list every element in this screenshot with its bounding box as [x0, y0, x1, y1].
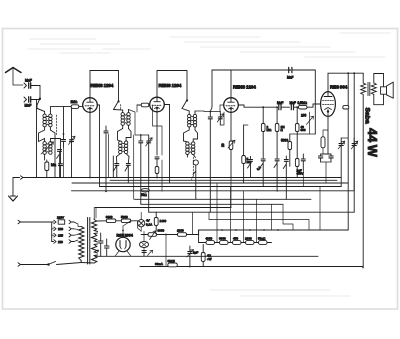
- divider feed wire y230: [199, 229, 349, 231]
- power transformer core: [88, 218, 90, 265]
- svg-text:30Ω0: 30Ω0: [168, 259, 176, 263]
- vertical x166 pot to bottom: [165, 235, 167, 267]
- staircase vertical x271.5: [271, 204, 273, 230]
- barretter element: [140, 235, 149, 252]
- voltage selector left rail: [51, 222, 53, 242]
- transformer T3 bandfilter 2 primary: [114, 110, 131, 129]
- wire antenna caps to switch: [39, 86, 41, 99]
- capacitor C16 det bottom with lever: [274, 159, 279, 191]
- bus wire y204.3: [141, 203, 283, 205]
- bus wire y199.3: [135, 198, 312, 200]
- voltage selector contacts row 220: [52, 220, 74, 224]
- resistor R4 below tube V2: [155, 167, 159, 178]
- resistor R11 bottom vertical: [295, 159, 299, 178]
- grid resistor R2 of tube V1: [71, 105, 82, 109]
- wire grid tube V3: [220, 105, 224, 125]
- svg-text:125: 125: [58, 233, 63, 237]
- wire x113.3 column: [112, 156, 114, 178]
- resistor R21 vertical 1400: [154, 212, 158, 231]
- bus wire y212.2: [149, 211, 355, 213]
- svg-text:Saba: Saba: [363, 108, 370, 124]
- variable resistor R5 below tube V3: [228, 140, 235, 177]
- switch contact with capacitor below T4 left: [114, 157, 119, 178]
- tube V2 REN1204 triode: [150, 97, 165, 112]
- capacitor C4 padder: [62, 107, 66, 178]
- trimmer capacitor C7 bandfilter2: [139, 135, 143, 204]
- resistor R18 bleeder vertical: [201, 244, 205, 266]
- bottom bus y256.3: [95, 255, 318, 257]
- label 100 with trimmer arrow: [301, 112, 314, 134]
- svg-text:1300: 1300: [245, 237, 252, 241]
- svg-text:6000: 6000: [219, 237, 226, 241]
- transformer T6 bandfilter 3 secondary: [184, 139, 198, 158]
- anode loop wire tube V3 top supply: [210, 70, 278, 112]
- capacitor C19 cathode: [321, 154, 334, 183]
- switch S2 on anode loop: [114, 101, 120, 110]
- electrolytic C25 with arrow: [187, 246, 194, 267]
- transformer T1 antenna coil: [43, 112, 52, 131]
- resistor R17: [254, 241, 272, 245]
- capacitor C18 cathode: [319, 154, 329, 162]
- variable capacitor C8 arrow bandfilter2: [146, 135, 153, 212]
- resistor R14: [215, 241, 229, 245]
- svg-text:MaF: MaF: [290, 101, 296, 105]
- wire x108.5: [108, 134, 110, 178]
- wire x320: [319, 187, 321, 231]
- switch contact circle below T6: [193, 160, 198, 199]
- svg-text:2μF: 2μF: [193, 251, 198, 255]
- resistor R19 filament row: [98, 219, 122, 223]
- svg-text:RES 964: RES 964: [330, 85, 348, 90]
- wire T1 right lead down: [50, 130, 55, 178]
- transformer T5 bandfilter 3 primary: [182, 109, 197, 131]
- wire T1 to T2 left loop: [39, 130, 45, 142]
- resistor R15: [228, 241, 241, 245]
- voltage selector contacts row bottom: [52, 240, 74, 244]
- svg-text:1300: 1300: [177, 229, 184, 233]
- coupling loop between T5 and T6: [184, 130, 198, 141]
- power transformer filament winding 1: [92, 233, 98, 242]
- staircase vertical x283: [283, 204, 293, 230]
- vertical supply wire x348: [347, 73, 349, 230]
- bottom bus y266.5: [140, 266, 363, 268]
- bus wire y186.5: [100, 186, 342, 188]
- svg-text:5000: 5000: [281, 139, 288, 143]
- HT wire to rectifier: [94, 208, 96, 219]
- bus wire y183: [72, 182, 348, 184]
- capacitor C9 below tube V2: [155, 157, 159, 167]
- capacitor C14 coupling: [291, 105, 298, 110]
- staircase vertical x243.5: [243, 191, 245, 242]
- earth terminal contact: [13, 176, 341, 196]
- resistor R25 agc vertical: [242, 125, 248, 183]
- transformer T4 bandfilter 2 secondary: [117, 138, 132, 157]
- capacitor C1 antenna coupling: [24, 83, 40, 88]
- staircase vertical x217 to divider: [216, 183, 218, 243]
- variable capacitor C11 arrow bandfilter3: [217, 112, 224, 126]
- transformer T2 tuned secondary: [39, 139, 53, 161]
- vertical x192.5 right psu: [193, 212, 199, 234]
- capacitor C26 with lever: [248, 157, 253, 178]
- capacitor C3 below coil: [59, 158, 63, 178]
- capacitor C24 below barretter: [142, 250, 153, 256]
- wire x133.7: [133, 135, 135, 199]
- tube V3 RENS1204: [224, 98, 239, 113]
- svg-text:MaF: MaF: [25, 79, 32, 83]
- coupling loop between T3 and T4: [118, 129, 132, 141]
- smoothing capacitor C23: [105, 239, 110, 256]
- volume control ellipse: [141, 189, 149, 192]
- voltage selector contacts row 110: [52, 233, 74, 237]
- svg-text:MΩ: MΩ: [51, 163, 57, 167]
- wire column x166 from grid components: [153, 105, 163, 191]
- resistor R7 detector vertical: [261, 107, 265, 158]
- mains bottom wire with switch: [18, 262, 81, 267]
- wire column x106: [105, 134, 107, 191]
- wire connecting r10 top: [290, 133, 316, 135]
- loudspeaker: [381, 82, 394, 98]
- power transformer filament winding 3: [81, 255, 97, 263]
- resistor R23 1300: [166, 230, 199, 236]
- capacitor C2 antenna coupling: [24, 97, 40, 102]
- bus wire y207.5 top supply of PSU: [95, 207, 231, 209]
- resistor R20 filament row: [121, 219, 137, 223]
- resistor R10 mid vertical: [288, 134, 292, 166]
- rectifier tube V5 RGN2004: [115, 231, 131, 257]
- switch contact with capacitor below T4 right: [125, 157, 130, 184]
- svg-text:220V: 220V: [57, 216, 64, 220]
- dashed gang line below switches: [192, 157, 194, 180]
- tube V1 REN1204 triode: [83, 98, 98, 113]
- power transformer primary winding: [79, 227, 84, 263]
- antenna: [6, 68, 24, 86]
- trimmer capacitor C5 with arrow: [69, 107, 76, 178]
- staircase vertical x230.5: [230, 187, 232, 243]
- mains wire top: [20, 221, 51, 223]
- svg-text:1MΩ: 1MΩ: [71, 100, 78, 104]
- cathode resistor R12 tube V4: [321, 130, 328, 154]
- wire tube V2 right electrode: [164, 105, 169, 184]
- resistor R9 vertical: [295, 107, 299, 158]
- cathode wire tube V1 down: [89, 112, 91, 177]
- svg-text:MaF: MaF: [277, 101, 283, 105]
- capacitor C15 det bottom with lever: [260, 159, 265, 187]
- svg-text:50nΩ: 50nΩ: [258, 237, 266, 241]
- svg-text:RENS 1204: RENS 1204: [233, 85, 256, 90]
- svg-text:110: 110: [58, 240, 63, 244]
- svg-text:50Ω: 50Ω: [141, 193, 148, 197]
- cathode wire tube V4 down: [327, 116, 329, 154]
- wire tube V1 right electrode down: [97, 105, 99, 187]
- svg-text:RENS 1204: RENS 1204: [91, 83, 114, 88]
- dashed gang wire antenna switch: [56, 115, 58, 135]
- wire T2 top to grid column: [50, 139, 60, 159]
- svg-text:1400: 1400: [160, 219, 167, 223]
- switch contact lever x58: [57, 150, 62, 178]
- voltage selector contacts row 125: [52, 227, 74, 231]
- capacitor C13 coupling: [279, 105, 290, 110]
- svg-text:30mA: 30mA: [155, 262, 163, 266]
- smoothing capacitor C22 left of rectifier: [99, 233, 104, 256]
- power transformer HT secondary: [92, 219, 98, 232]
- tube V4 RES964 output pentode: [321, 92, 336, 117]
- bus wire y180.3: [110, 179, 337, 181]
- svg-text:20: 20: [221, 143, 225, 147]
- anode loop wire tube V2: [157, 71, 187, 101]
- svg-text:3000: 3000: [106, 215, 113, 219]
- output transformer core: [368, 83, 370, 96]
- grid resistor R3 tube V2: [137, 103, 153, 112]
- mains plug contact top: [18, 220, 21, 224]
- svg-text:MaF: MaF: [25, 104, 32, 108]
- anode loop wire tube V1: [90, 71, 119, 102]
- fuse box on 220 row: [58, 220, 64, 224]
- capacitor C6 stage1 bypass: [104, 126, 108, 133]
- svg-text:RENS 1204: RENS 1204: [159, 83, 182, 88]
- power transformer filament winding 2: [92, 244, 98, 253]
- wire y219 tap: [209, 220, 309, 231]
- svg-text:MaF: MaF: [287, 76, 293, 80]
- resistor R16: [241, 241, 254, 245]
- svg-text:220: 220: [58, 227, 63, 231]
- resistor R8 detector vertical: [275, 107, 279, 158]
- vertical supply wire x354: [353, 73, 355, 212]
- selector to primary wires: [74, 222, 81, 242]
- switch S3 on anode loop V2: [182, 100, 188, 109]
- wire x231 psu top feed: [230, 178, 232, 208]
- variable capacitor arrow on T2 tuning: [41, 142, 54, 154]
- resistor R24 7000 bottom: [168, 263, 178, 267]
- dial lamp: [138, 212, 145, 231]
- wire loop left of T1: [37, 100, 45, 125]
- small resistor on supply wire: [343, 106, 349, 109]
- cathode wire tube V2 down: [156, 112, 158, 155]
- capacitor C12 in top supply line: [278, 67, 315, 134]
- output transformer primary winding: [361, 73, 366, 268]
- svg-text:+: +: [97, 249, 99, 253]
- dashed gang wire switch S2: [120, 105, 122, 111]
- electrolytic capacitor C20 with arrow: [338, 138, 348, 187]
- ghost print-through marks: [28, 33, 390, 296]
- staircase vertical x256.5: [256, 199, 258, 242]
- wire top joining trimmers: [129, 110, 149, 136]
- HT return corner x362.8: [362, 267, 364, 268]
- capacitor C10 bandfilter3 fixed: [208, 112, 212, 213]
- svg-text:450: 450: [233, 237, 238, 241]
- ground symbol: [9, 196, 18, 201]
- wire left column x36.5: [36, 125, 38, 178]
- resistor R1 below coil: [45, 160, 49, 178]
- svg-text:0,1A: 0,1A: [146, 223, 152, 227]
- svg-text:4000: 4000: [206, 237, 213, 241]
- capacitor C27 small: [283, 156, 288, 199]
- cathode wire tube V3 down: [230, 112, 232, 141]
- electrolytic capacitor C21 with arrow: [351, 138, 358, 190]
- potentiometer R22 with arrow: [141, 231, 166, 240]
- svg-text:100: 100: [301, 114, 307, 118]
- grid resistor R6 tube V4: [299, 104, 321, 109]
- resistor chain R13: [199, 230, 215, 244]
- bus wire y191.3: [72, 190, 355, 192]
- AF coupling row: wire from tube V3 anode right: [238, 105, 277, 107]
- svg-text:5000: 5000: [121, 215, 128, 219]
- wire x209 from bandfilter caps: [208, 212, 210, 219]
- wire rect cathode up: [123, 221, 131, 231]
- grid wire tube V1 to coil: [50, 107, 71, 112]
- capacitor C17 electrolytic pair: [301, 154, 305, 187]
- svg-text:44 W: 44 W: [365, 128, 380, 158]
- anode loop wire tube V4 to output transformer: [328, 73, 363, 91]
- svg-text:3000: 3000: [158, 229, 165, 233]
- wire lamp to pot: [138, 221, 145, 235]
- wire top of bandfilter3 caps: [195, 110, 220, 113]
- svg-text:0,5MΩ: 0,5MΩ: [298, 101, 308, 105]
- output transformer secondary winding: [371, 74, 383, 105]
- switch S1 wave band: [37, 98, 45, 112]
